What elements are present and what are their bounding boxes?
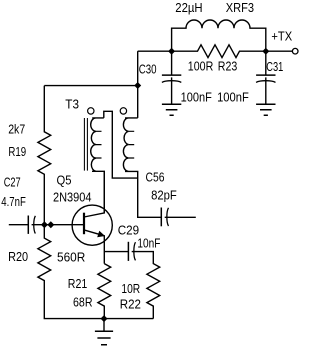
svg-text:10R: 10R: [121, 281, 140, 296]
svg-text:100nF: 100nF: [217, 89, 249, 104]
svg-text:R21: R21: [68, 276, 88, 291]
svg-text:C29: C29: [118, 223, 139, 238]
svg-text:C30: C30: [139, 61, 157, 76]
svg-text:C31: C31: [266, 59, 283, 74]
svg-text:2k7: 2k7: [8, 121, 25, 136]
svg-text:+TX: +TX: [271, 28, 292, 43]
svg-text:560R: 560R: [57, 249, 85, 264]
svg-text:R22: R22: [120, 296, 141, 311]
svg-text:R19: R19: [8, 144, 26, 159]
svg-text:10nF: 10nF: [137, 235, 160, 250]
svg-text:4.7nF: 4.7nF: [1, 194, 26, 209]
svg-text:22µH: 22µH: [175, 0, 202, 15]
svg-text:100R: 100R: [188, 59, 214, 74]
svg-text:82pF: 82pF: [151, 187, 177, 202]
svg-text:C56: C56: [146, 170, 165, 185]
svg-text:XRF3: XRF3: [226, 0, 254, 15]
svg-text:R23: R23: [218, 59, 238, 74]
svg-text:T3: T3: [65, 96, 79, 111]
svg-text:68R: 68R: [73, 294, 93, 309]
svg-text:2N3904: 2N3904: [53, 190, 92, 205]
svg-text:C27: C27: [4, 175, 21, 190]
svg-text:100nF: 100nF: [181, 89, 212, 104]
svg-text:R20: R20: [8, 249, 28, 264]
svg-text:Q5: Q5: [57, 172, 72, 187]
